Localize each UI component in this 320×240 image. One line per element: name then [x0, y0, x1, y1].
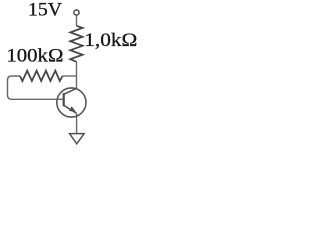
- wire feedback loop: left side down to base: [8, 76, 64, 99]
- svg-text:100kΩ: 100kΩ: [6, 45, 63, 66]
- node VCC terminal: [74, 10, 79, 15]
- wire emitter to ground: [76, 113, 78, 133]
- transistor Q1 emitter lead: [64, 105, 77, 113]
- svg-text:15V: 15V: [28, 0, 63, 20]
- svg-text:1,0kΩ: 1,0kΩ: [84, 30, 137, 51]
- transistor Q1 circle: [57, 88, 86, 117]
- wire R1 bottom to collector (through feedback junction): [76, 62, 78, 89]
- ground: [70, 134, 85, 144]
- resistor R1 1,0kΩ (collector resistor, vertical zigzag): [70, 26, 82, 62]
- resistor R2 100kΩ (feedback resistor, horizontal zigzag): [20, 71, 63, 81]
- transistor Q1 emitter arrowhead: [69, 106, 76, 112]
- straight wires (lighter): [8, 16, 77, 134]
- transistor Q1 base bar: [63, 93, 65, 106]
- wire terminal to R1 top: [76, 16, 78, 26]
- wire junction to R2 right lead: [63, 75, 77, 77]
- transistor Q1 collector lead: [64, 88, 77, 94]
